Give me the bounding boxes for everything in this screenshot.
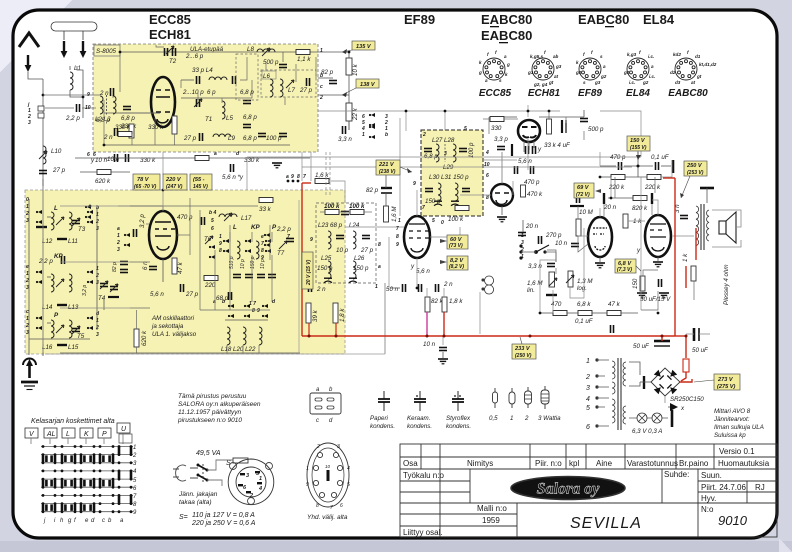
red fuse: [683, 359, 689, 372]
leader arrowheads: [342, 49, 684, 198]
trimmer cap L31: [451, 201, 459, 205]
dashed box L6 L7: [261, 70, 316, 97]
svg-text:T6: T6: [204, 236, 212, 243]
capacitor 3,2p: [134, 229, 137, 237]
watt 2: [525, 387, 532, 408]
wire col272b: [271, 255, 273, 302]
svg-text:L23 68 p: L23 68 p: [318, 222, 343, 229]
feeder arrow: [25, 55, 32, 72]
svg-text:L16: L16: [42, 344, 53, 351]
wire audio bus: [540, 260, 556, 313]
IF socket digits: [306, 444, 350, 511]
svg-text:k,g3: k,g3: [627, 52, 637, 57]
ground eabc: [595, 263, 605, 268]
contact wedge bot3: [262, 304, 268, 318]
svg-text:Työkalu n:o: Työkalu n:o: [403, 471, 444, 480]
dipole arrow right: [80, 41, 87, 58]
svg-text:620 k: 620 k: [95, 178, 111, 185]
svg-text:b: b: [320, 73, 323, 79]
wire am 353 drop2: [242, 345, 244, 353]
svg-text:2: 2: [25, 211, 29, 217]
vlabel 138V: [342, 79, 379, 95]
svg-text:a: a: [117, 226, 120, 232]
capacitor tank: [233, 76, 236, 84]
wire am vert5: [269, 225, 271, 260]
top-left corner highlight wedge: [0, 0, 72, 72]
title block malli lines: [440, 513, 517, 515]
svg-text:s: s: [499, 78, 502, 83]
node red2: [335, 335, 338, 338]
svg-text:kondens.: kondens.: [407, 423, 432, 430]
capacitor rd4: [349, 278, 357, 282]
wire det drop2: [488, 117, 490, 134]
svg-text:50 n: 50 n: [386, 286, 399, 293]
svg-text:1 7: 1 7: [249, 301, 256, 307]
bus top from FM to detector: [318, 110, 560, 112]
resistor 1,8k am: [333, 303, 338, 323]
wire KP row link: [47, 276, 51, 278]
pot arrow a: [549, 278, 557, 286]
svg-text:g: g: [478, 70, 482, 75]
svg-text:d1: d1: [695, 54, 701, 59]
resistor 330k: [118, 132, 132, 137]
ratio detector dashed box: [316, 203, 376, 283]
red wire 39k: [308, 323, 310, 336]
wire: [318, 94, 349, 96]
node 9: [292, 180, 295, 183]
svg-text:6: 6: [87, 152, 90, 158]
wire rd bus2: [339, 211, 350, 213]
node b3: [599, 176, 602, 179]
wire fm row1: [119, 52, 121, 92]
svg-text:T7: T7: [277, 250, 285, 257]
svg-text:27 p: 27 p: [52, 167, 66, 174]
node red1: [308, 335, 311, 338]
capacitor 27p bot: [200, 133, 203, 141]
wire P row link: [47, 322, 51, 324]
wire: [637, 152, 639, 177]
svg-text:L9: L9: [228, 135, 235, 142]
socket ECH81: [532, 58, 554, 80]
vlabel 78V: [133, 174, 160, 190]
svg-text:T2: T2: [169, 58, 177, 65]
IF socket oval: [307, 443, 349, 507]
svg-text:100 k: 100 k: [324, 203, 340, 210]
svg-text:4: 4: [258, 486, 262, 492]
svg-text:221 V: 221 V: [378, 162, 395, 168]
svg-text:L15: L15: [68, 344, 79, 351]
matrix drop wires: [31, 433, 123, 444]
capacitor 500p det: [580, 119, 588, 122]
label L6: [262, 71, 276, 79]
svg-text:kondens.: kondens.: [370, 423, 395, 430]
wire: [686, 333, 694, 335]
wire ef89 row: [345, 226, 404, 228]
svg-text:2: 2: [116, 240, 120, 246]
coil L18: [227, 327, 230, 345]
wire left bus: [42, 79, 44, 352]
mains plug: [176, 465, 186, 481]
capacitor 50uF a: [654, 341, 670, 346]
bus y111: [405, 111, 407, 131]
coil L25: [328, 261, 331, 279]
svg-text:EF89: EF89: [404, 12, 435, 27]
svg-text:g1: g1: [527, 70, 534, 75]
ECC85 electrodes: [156, 90, 170, 123]
wire: [583, 110, 585, 117]
bus x302 down: [301, 152, 303, 181]
svg-text:6: 6: [211, 226, 214, 232]
svg-text:pirustukseen n:o 9010: pirustukseen n:o 9010: [177, 417, 242, 424]
coil L13: [69, 274, 72, 292]
digits cluster mid: [219, 234, 290, 261]
contact wedge P1: [36, 316, 42, 330]
svg-text:3 Wattia: 3 Wattia: [538, 415, 561, 422]
svg-text:10 n: 10 n: [423, 341, 436, 348]
svg-text:1,1 k: 1,1 k: [297, 56, 311, 63]
transformer primary coil: [696, 206, 699, 246]
svg-text:5,6 n: 5,6 n: [518, 158, 532, 165]
svg-text:Hyv.: Hyv.: [701, 494, 716, 503]
wire am p link: [130, 307, 150, 309]
capacitor 10n b: [115, 154, 118, 162]
svg-text:takaa (alta): takaa (alta): [179, 499, 212, 506]
wire rd bus3: [364, 211, 372, 213]
svg-text:e: e: [26, 264, 29, 270]
svg-text:2: 2: [319, 95, 323, 101]
svg-text:at: at: [691, 80, 696, 85]
svg-text:150 V: 150 V: [630, 138, 646, 144]
node: [637, 165, 640, 168]
svg-text:220 k: 220 k: [644, 184, 661, 191]
voltage selector plate: [228, 459, 274, 505]
wire: [207, 480, 222, 486]
wire 330 r: [504, 118, 518, 120]
vlabel 20V vertical: [302, 252, 313, 289]
capacitor 50n: [403, 284, 406, 292]
wire: [207, 460, 233, 470]
svg-text:(73 V): (73 V): [449, 243, 463, 249]
svg-text:8: 8: [252, 308, 255, 314]
capacitor 2,2p: [77, 104, 80, 112]
svg-text:100 k: 100 k: [448, 216, 464, 223]
svg-text:110 ja 127 V = 0,8 A: 110 ja 127 V = 0,8 A: [192, 512, 255, 519]
coil L6: [270, 79, 273, 97]
arrowhead 138V: [342, 92, 347, 97]
bus x311: [310, 152, 312, 181]
wire: [629, 362, 640, 375]
resistor 820k: [633, 196, 647, 201]
capacitor 27p am: [181, 284, 184, 292]
svg-text:(65 -70 V): (65 -70 V): [134, 184, 157, 190]
switch dots: [519, 244, 546, 259]
ground det: [497, 217, 507, 222]
arrowhead 221V: [407, 168, 412, 173]
capacitor 100p: [279, 134, 287, 137]
svg-text:11.12.1957 päivättyyn: 11.12.1957 päivättyyn: [178, 409, 242, 416]
digits col KPr: [95, 266, 99, 286]
svg-text:1,3 M: 1,3 M: [577, 278, 593, 285]
svg-text:a: a: [504, 54, 507, 59]
tube EABC80 schematic: [588, 217, 612, 257]
fuse S: [233, 458, 248, 463]
wire 1,6k out: [329, 181, 345, 203]
wire 1,8k down: [443, 288, 445, 297]
contact cluster: [361, 114, 388, 138]
wire am vert4: [229, 225, 231, 260]
svg-text:3: 3: [28, 120, 31, 126]
capacitor 82p c: [381, 188, 392, 193]
svg-text:Tämä pirustus perustuu: Tämä pirustus perustuu: [178, 393, 247, 400]
wire: [385, 193, 387, 206]
svg-text:4: 4: [347, 466, 350, 472]
svg-text:Paperi: Paperi: [370, 415, 389, 422]
coil L24: [353, 231, 356, 249]
red B+ vertical mid: [301, 183, 303, 336]
svg-text:AM oskillaattori: AM oskillaattori: [151, 315, 195, 322]
capacitor 270p: [539, 236, 542, 244]
psu core: [618, 358, 621, 430]
svg-text:150 p: 150 p: [353, 265, 369, 272]
svg-text:L: L: [233, 224, 237, 231]
coil L12: [51, 212, 54, 230]
svg-text:c: c: [320, 84, 323, 90]
node b14: [539, 312, 542, 315]
diode nw: [654, 370, 661, 377]
svg-text:g2: g2: [600, 74, 607, 79]
svg-text:g: g: [506, 62, 510, 67]
svg-text:6: 6: [486, 173, 489, 179]
wire am osc grid: [146, 223, 149, 225]
wire grid stopper: [610, 177, 612, 198]
bus from IF box to EF89: [483, 159, 517, 161]
wire l2 top: [43, 94, 100, 96]
svg-text:138 V: 138 V: [360, 82, 376, 88]
coil L4: [209, 77, 227, 80]
output transformer top gnd: [700, 187, 714, 190]
node red5: [529, 335, 532, 338]
svg-text:1: 1: [26, 271, 29, 277]
svg-text:Suun.: Suun.: [701, 471, 722, 480]
resistor 620k rot: [134, 329, 139, 347]
wire ant in: [45, 107, 74, 109]
wire: [103, 299, 105, 310]
digits col Lb: [95, 205, 99, 232]
capacitor 3,3n: [343, 126, 346, 134]
contact wedge bot2: [244, 304, 250, 318]
pot 1,3M: [568, 271, 573, 287]
node red7: [685, 335, 688, 338]
svg-text:3: 3: [337, 444, 340, 450]
svg-text:ULA 1. välijakso: ULA 1. välijakso: [152, 331, 197, 338]
svg-text:10: 10: [325, 464, 331, 469]
ground 50uf: [659, 293, 669, 298]
svg-text:8: 8: [219, 248, 222, 254]
wire: [80, 171, 97, 173]
matrix row wire: [41, 462, 133, 464]
wire col252: [251, 232, 253, 242]
svg-text:L13: L13: [68, 304, 79, 311]
svg-text:9010: 9010: [718, 513, 748, 528]
svg-text:s: s: [600, 54, 603, 59]
svg-text:log.: log.: [577, 285, 587, 292]
AM oscillator yellow region: [25, 190, 345, 354]
ground fm: [272, 163, 282, 168]
svg-text:5: 5: [464, 126, 467, 132]
svg-text:a: a: [213, 299, 216, 305]
capacitor if4: [462, 189, 470, 192]
svg-text:ECC85: ECC85: [479, 88, 512, 99]
svg-text:1: 1: [586, 358, 590, 365]
diode se: [670, 387, 677, 394]
svg-text:k: k: [479, 60, 482, 65]
svg-text:9: 9: [310, 237, 313, 243]
wire fm l6 out: [284, 97, 286, 105]
svg-text:kd2: kd2: [673, 52, 681, 57]
node b13: [444, 110, 447, 113]
switch contact b: [198, 475, 207, 480]
svg-text:2: 2: [25, 278, 29, 284]
svg-text:a: a: [485, 78, 488, 83]
svg-text:1: 1: [306, 466, 309, 472]
capacitor 6n: [149, 267, 157, 270]
vlabel 8,2V: [440, 256, 468, 270]
wire sw: [521, 251, 536, 253]
node b10: [103, 144, 106, 147]
wire el84 k: [643, 270, 658, 276]
capacitor rd1: [336, 236, 344, 239]
wire: [318, 77, 333, 79]
svg-text:2,2 p: 2,2 p: [38, 258, 53, 265]
capacitor 10n ctl: [571, 244, 579, 247]
wire am l link: [130, 206, 163, 211]
det tube legs: [524, 141, 534, 152]
selector inner circle: [236, 467, 266, 497]
svg-text:Br.paino: Br.paino: [679, 459, 709, 468]
svg-text:82 p: 82 p: [366, 187, 379, 194]
svg-text:s: s: [583, 80, 586, 85]
svg-text:EABC80: EABC80: [481, 12, 532, 27]
svg-text:d3: d3: [675, 80, 681, 85]
coil L9: [213, 134, 231, 137]
capacitor bar det: [511, 144, 513, 156]
coil L31: [455, 183, 458, 201]
red right riser: [674, 178, 676, 336]
capacitor psu: [643, 376, 645, 389]
wire speaker gnd: [693, 281, 695, 300]
wire fm mid link: [180, 80, 182, 88]
bus x330 down: [329, 152, 331, 196]
svg-text:5: 5: [432, 218, 435, 224]
wire L row link: [47, 216, 51, 218]
vlabel 69V: [574, 183, 601, 198]
svg-text:0: 0: [26, 197, 29, 203]
svg-text:T3: T3: [78, 226, 86, 233]
capacitor row d: [268, 275, 276, 278]
svg-text:g3: g3: [555, 64, 562, 69]
wire fm row80: [240, 57, 247, 80]
svg-text:Suluissa kp: Suluissa kp: [714, 432, 746, 439]
capacitor 2n ef: [436, 284, 439, 292]
title block v-lines header: [420, 444, 422, 469]
svg-text:233 V: 233 V: [514, 346, 531, 352]
svg-text:6: 6: [340, 503, 343, 509]
svg-text:3: 3: [26, 218, 29, 224]
title block h-line mid: [400, 502, 777, 504]
red horiz jog: [675, 335, 686, 337]
wire: [668, 406, 670, 408]
wire fm 145: [154, 118, 156, 145]
svg-text:kt,d1,d2: kt,d1,d2: [699, 62, 717, 67]
svg-text:lin.: lin.: [527, 287, 535, 294]
capacitor 2,2p t7: [286, 239, 294, 242]
contact wedge mid2: [264, 233, 270, 247]
svg-text:P: P: [102, 431, 107, 438]
wire: [712, 210, 741, 227]
svg-text:273 V: 273 V: [717, 377, 734, 383]
resistor 220k b: [647, 175, 661, 180]
svg-text:330 k: 330 k: [148, 124, 164, 131]
underline A: [490, 26, 499, 27]
primary terminal digits: [585, 358, 590, 431]
svg-text:kpl: kpl: [569, 459, 579, 468]
IF socket center slot: [327, 470, 330, 481]
resistor 39k: [306, 303, 311, 323]
coil L27: [436, 144, 439, 162]
plug prongs: [173, 469, 179, 477]
node b5: [527, 110, 530, 113]
wire: [592, 312, 607, 314]
svg-text:S-8005: S-8005: [96, 48, 117, 55]
capacitor 2,2p am: [62, 256, 65, 264]
svg-text:2: 2: [422, 132, 426, 138]
band letters: [29, 426, 127, 438]
ground bar L: [36, 226, 47, 228]
node b1: [348, 51, 351, 54]
bus x326 down: [325, 152, 327, 196]
wire: [42, 179, 44, 186]
svg-text:150 p: 150 p: [425, 198, 441, 205]
svg-text:820 k: 820 k: [632, 205, 648, 212]
svg-text:470 k: 470 k: [527, 191, 543, 198]
svg-text:c: c: [102, 518, 105, 524]
wire eabc plate: [599, 208, 601, 217]
wire gray am right: [298, 200, 300, 354]
wire am 353 drop3: [258, 345, 260, 353]
jack contacts: [485, 276, 494, 294]
capacitor bar au3: [651, 193, 653, 204]
svg-text:a: a: [378, 264, 381, 270]
svg-text:L26: L26: [354, 255, 365, 262]
capacitor 20n det: [518, 233, 526, 236]
svg-text:(247 V): (247 V): [166, 184, 183, 190]
svg-text:L: L: [54, 205, 58, 212]
svg-text:150: 150: [632, 278, 639, 289]
trimmer T5: [72, 326, 80, 334]
contact wedge L2: [87, 210, 93, 224]
digits col a123: [116, 226, 120, 253]
resistor 100k if: [455, 206, 469, 211]
IF socket inner: [312, 448, 344, 502]
svg-text:3,2 p: 3,2 p: [139, 214, 146, 228]
svg-text:(55 -: (55 -: [193, 177, 205, 183]
capacitor 50uF15V a: [659, 279, 662, 287]
capacitor 10n: [126, 154, 129, 162]
selector ear 3: [248, 498, 255, 505]
wire am coil bus: [60, 205, 130, 207]
coil L3: [113, 96, 116, 114]
svg-text:9: 9: [396, 242, 399, 248]
